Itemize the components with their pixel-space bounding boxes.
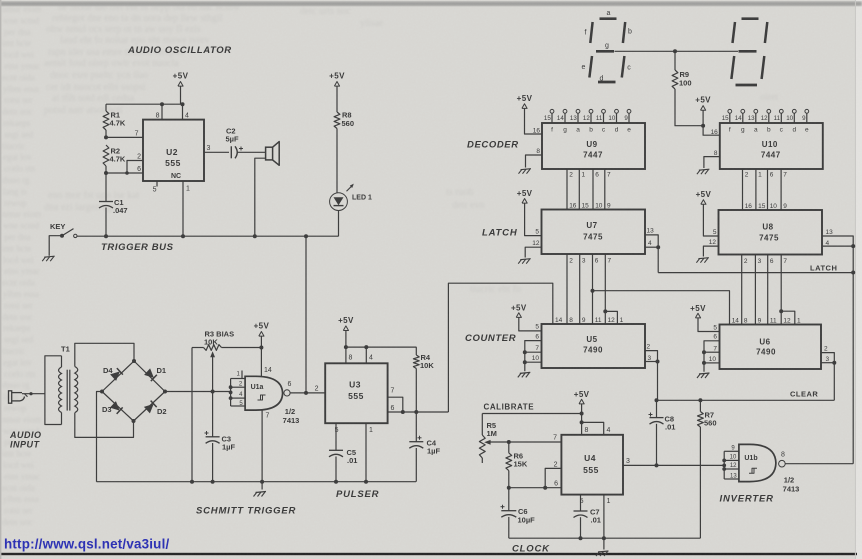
node trigger drop xyxy=(304,391,308,395)
speaker LS1 xyxy=(266,147,273,160)
connector audio input jack xyxy=(9,391,12,403)
wire TRIGGER BUS xyxy=(77,235,339,237)
wire U5 reset down to CLEAR xyxy=(657,362,659,401)
wires U8 outputs to U6 xyxy=(741,255,743,325)
resistor R9 xyxy=(674,51,676,70)
capacitor C1 xyxy=(99,201,113,203)
wire pin 4 (U3) xyxy=(365,347,367,363)
wire bridge left corner down xyxy=(97,392,103,482)
node U1a pin7/rail xyxy=(260,480,264,484)
pins 2-3 bracket (U6) xyxy=(821,353,834,363)
wire C3 to ground rail xyxy=(212,443,214,482)
display DS1 segment a xyxy=(600,17,617,20)
wire bridge edges xyxy=(102,361,165,421)
node bridge bottom xyxy=(132,419,136,423)
node R1/R2/pin7 xyxy=(104,135,108,139)
wire U5 reset vertical joins xyxy=(657,399,658,401)
U10 top pins to display xyxy=(728,109,732,113)
wire R9 to +5V node (U10) xyxy=(675,89,703,126)
IC U6 (7490 counter) xyxy=(720,325,822,370)
wire pin 8 (U2) xyxy=(161,104,163,119)
node R3 leg/rail xyxy=(190,480,194,484)
display DS2 segment d xyxy=(736,84,758,87)
capacitor C4 xyxy=(415,412,417,442)
ground (clock) xyxy=(603,538,605,549)
wire C1 to trigger bus xyxy=(105,208,107,237)
node +5V/pin8 (U3) xyxy=(344,345,348,349)
pin 8 / ground (U10) xyxy=(704,157,720,168)
power +5V (U3) xyxy=(343,326,348,331)
power +5V (U5) xyxy=(516,313,521,318)
display DS2 segment a xyxy=(742,17,759,20)
R5 wiper from pin 7 xyxy=(509,441,562,443)
wire pins 2-6 loop (U2) xyxy=(106,172,143,174)
node pin1/rail xyxy=(602,536,606,540)
wire R8 to LED1 xyxy=(336,129,338,193)
wire C6 to clock rail xyxy=(508,517,510,538)
wire U8 latch enable down xyxy=(852,246,854,272)
R3 wiper xyxy=(212,356,214,392)
wire U1a output to U3 pin 2 xyxy=(290,392,325,394)
wires U10 outputs to U8 xyxy=(742,169,744,210)
node pin8/pin4 split (U4) xyxy=(581,414,583,423)
pin 5 / C7 (U4) xyxy=(580,495,582,511)
wire R3 left leg down to ground rail xyxy=(191,348,193,482)
diode D1 xyxy=(144,368,154,378)
wire pin 1 jog (U6) xyxy=(781,311,795,324)
node bridge right xyxy=(163,390,167,394)
node LATCH/inverter xyxy=(851,271,855,275)
capacitor C3 xyxy=(212,392,214,437)
power +5V (R8) xyxy=(334,82,339,87)
node pin7 join xyxy=(401,410,405,414)
node C5/rail xyxy=(334,480,338,484)
node U2 pin1/bus xyxy=(181,234,185,238)
wire pin 1 (U2) to trigger bus xyxy=(182,181,184,236)
capacitor C5 xyxy=(329,449,343,451)
pin 12 / ground (U7) xyxy=(525,247,541,257)
power +5V (U10) xyxy=(701,106,706,111)
ground (U6) xyxy=(699,373,710,374)
power +5V (U7) xyxy=(522,199,527,204)
node speaker/bus xyxy=(253,234,257,238)
power +5V (U1a) xyxy=(259,332,264,337)
wire node to C1 xyxy=(105,173,107,202)
IC U7 (7475 latch) xyxy=(542,210,646,255)
potentiometer R5 xyxy=(481,414,483,436)
display DS1 segment f xyxy=(590,22,592,43)
op-amp U3 (555 timer) xyxy=(325,363,387,423)
resistor R8 xyxy=(334,112,340,129)
node R9/+5V (U10) xyxy=(701,124,705,128)
U1a input ladder xyxy=(230,379,232,407)
wire +5V rail (U3) xyxy=(346,346,417,348)
wire trigger bus to U1a output xyxy=(305,236,307,393)
wire R7 to clock ground rail xyxy=(699,427,701,538)
node R9 tap xyxy=(673,49,677,53)
wire R2 to pin6 node xyxy=(105,166,107,173)
wire pin 14 (U1a) xyxy=(260,348,262,377)
display DS1 segment b xyxy=(623,22,625,43)
ground (schmitt rail) xyxy=(261,482,263,490)
node C7/rail xyxy=(579,536,583,540)
wire clock ground rail xyxy=(509,537,701,539)
ground (KEY) xyxy=(44,256,55,257)
power +5V (U8) xyxy=(701,200,706,205)
diode D3 xyxy=(110,401,120,411)
wire pin 1 jog (U5) xyxy=(605,311,617,324)
wires U7 outputs to U5 xyxy=(566,254,568,324)
wire pin 7 (U2) xyxy=(106,136,143,138)
wire pin 1 (U4) xyxy=(603,495,605,539)
node schmitt drop/bus xyxy=(304,234,308,238)
node R3/+5V/pin14 xyxy=(259,346,263,350)
node CLEAR/C8 xyxy=(655,398,659,402)
power +5V (U4) xyxy=(579,399,584,404)
resistor R1 xyxy=(105,104,107,111)
wire speaker to trigger bus xyxy=(255,158,266,236)
U1b input ladder xyxy=(723,451,725,479)
pins 13-4 bracket (U7) xyxy=(645,235,658,247)
wire schmitt ground rail xyxy=(97,481,417,483)
pins 2-3 bracket (U5) xyxy=(645,351,658,362)
diode D2 xyxy=(144,404,154,414)
node R6/C6 xyxy=(507,486,511,490)
LED LED1 xyxy=(330,193,348,211)
diode D4 xyxy=(110,371,120,381)
node pin4 tap xyxy=(181,102,185,106)
node +5V/calibrate xyxy=(580,412,584,416)
pins 2-6 loop (U4) xyxy=(545,468,561,487)
pin 5 stub (U2) xyxy=(156,181,158,187)
display DS2 segment b xyxy=(765,22,767,43)
display DS1 segment e xyxy=(589,56,592,78)
node pin 12 jog (U6) xyxy=(779,309,783,313)
wire pin 6 to R6/C6 xyxy=(509,487,545,489)
capacitor C7 xyxy=(574,510,588,512)
node pin8 tap xyxy=(160,102,164,106)
capacitor C6 xyxy=(508,488,510,511)
wires U9 outputs to U7 xyxy=(566,169,568,210)
display DS2 segment g xyxy=(739,50,757,53)
wire +5V rail to U2 xyxy=(106,103,183,105)
node CLEAR/R7 xyxy=(698,398,702,402)
wire pin 4 loop (U4) xyxy=(582,422,604,434)
wire pin 4 (U2) xyxy=(182,104,184,119)
node R6 top xyxy=(507,440,511,444)
wire U6 reset down to CLEAR xyxy=(833,363,835,401)
wire pin 3 (U2) to C2 xyxy=(204,151,229,153)
U9 top pins to display xyxy=(550,109,554,113)
pin 12 / ground (U8) xyxy=(703,246,718,256)
node C8/pin3 wire xyxy=(655,463,659,467)
wire U1b output to LATCH xyxy=(785,463,853,465)
wire pin 8 (U4) xyxy=(581,422,583,434)
pin 1 stub (U1a) xyxy=(241,371,243,379)
node bridge top xyxy=(132,359,136,363)
display DS1 segment c xyxy=(622,56,625,78)
wire T1 secondary top to bridge xyxy=(75,343,134,366)
U6 left pins 6-7-10 ladder xyxy=(704,341,720,372)
wire R1 to pin7 node xyxy=(105,130,107,137)
pin 7 wire (U1a) xyxy=(261,410,263,482)
display DS2 segment e xyxy=(731,56,734,79)
power +5V (U2) xyxy=(178,82,183,87)
ground (U5) xyxy=(520,372,531,373)
node C1/bus xyxy=(104,234,108,238)
bottom rule xyxy=(0,553,857,555)
op-amp U4 (555 timer) xyxy=(561,435,623,495)
resistor R2 xyxy=(103,145,109,166)
power +5V (U9) xyxy=(522,104,527,109)
resistor R7 xyxy=(699,400,701,411)
node U3 pin1/rail xyxy=(364,480,368,484)
display DS1 segment d xyxy=(598,81,616,84)
node pin4 tap (U3) xyxy=(364,345,368,349)
pin 8 / ground (U9) xyxy=(526,155,543,168)
node bridge left xyxy=(100,390,104,394)
wire pin 6 (U3) to R4/C4 node xyxy=(388,411,449,413)
wire U3 out to U5 pin 14 xyxy=(448,283,552,412)
wire pin 1 (U3) xyxy=(365,423,367,482)
resistor R6 xyxy=(508,442,510,453)
node C3/rail xyxy=(211,480,215,484)
node QD cascade (U5 pin 11 line) xyxy=(591,289,595,293)
display DS2 segment c xyxy=(762,56,765,79)
node wiper tap xyxy=(211,390,215,394)
wire U7 latch enable down xyxy=(657,247,659,272)
IC U8 (7475 latch) xyxy=(719,210,823,255)
wire C2 to speaker xyxy=(238,151,266,153)
top scan edge band (decorative) xyxy=(0,2,862,7)
wire CLEAR line xyxy=(657,399,835,401)
left scan edge xyxy=(0,0,1,559)
power +5V (U6) xyxy=(695,313,700,318)
IC U9 (7447 decoder) xyxy=(542,123,645,169)
gate U1a (1/2 7413) xyxy=(245,376,283,410)
resistor R4 xyxy=(415,347,417,355)
wire pin 8 (U3) xyxy=(345,347,347,363)
wire C4 to ground rail xyxy=(415,448,417,482)
U5 left pins 6-7-10 ladder xyxy=(525,341,542,372)
wire T1 secondary bottom to bridge xyxy=(75,413,134,438)
IC U10 (7447 decoder) xyxy=(720,123,823,169)
node R4/C4 xyxy=(414,410,418,414)
wire g-segment bus xyxy=(615,50,739,52)
display DS2 segment f xyxy=(733,22,736,43)
display DS1 segment g xyxy=(596,50,614,53)
pin 5 / C5 (U3) xyxy=(335,423,337,450)
gate U1b (1/2 7413) xyxy=(739,444,776,481)
wire KEY to ground xyxy=(49,236,62,256)
wire LED1 to trigger bus xyxy=(338,211,340,237)
op-amp U2 (555 timer) xyxy=(143,120,204,181)
wire cascade U5 QD to U6 pin 14 xyxy=(593,291,730,325)
pins 13-4 bracket (U8) xyxy=(822,236,853,246)
wire LATCH line xyxy=(658,272,853,274)
wire bridge right corner to U1a input xyxy=(165,391,231,393)
IC U5 (7490 counter) xyxy=(542,324,646,368)
wire CALIBRATE line xyxy=(482,413,581,415)
node pin 12 jog (U5) xyxy=(603,309,607,313)
wire jack tip to T1 xyxy=(22,393,45,395)
wire pin 3 (U4) to inverter xyxy=(623,464,724,466)
capacitor C8 xyxy=(656,400,658,417)
node pins 2-6 junction xyxy=(104,171,108,175)
wire LATCH to inverter output xyxy=(852,273,854,464)
